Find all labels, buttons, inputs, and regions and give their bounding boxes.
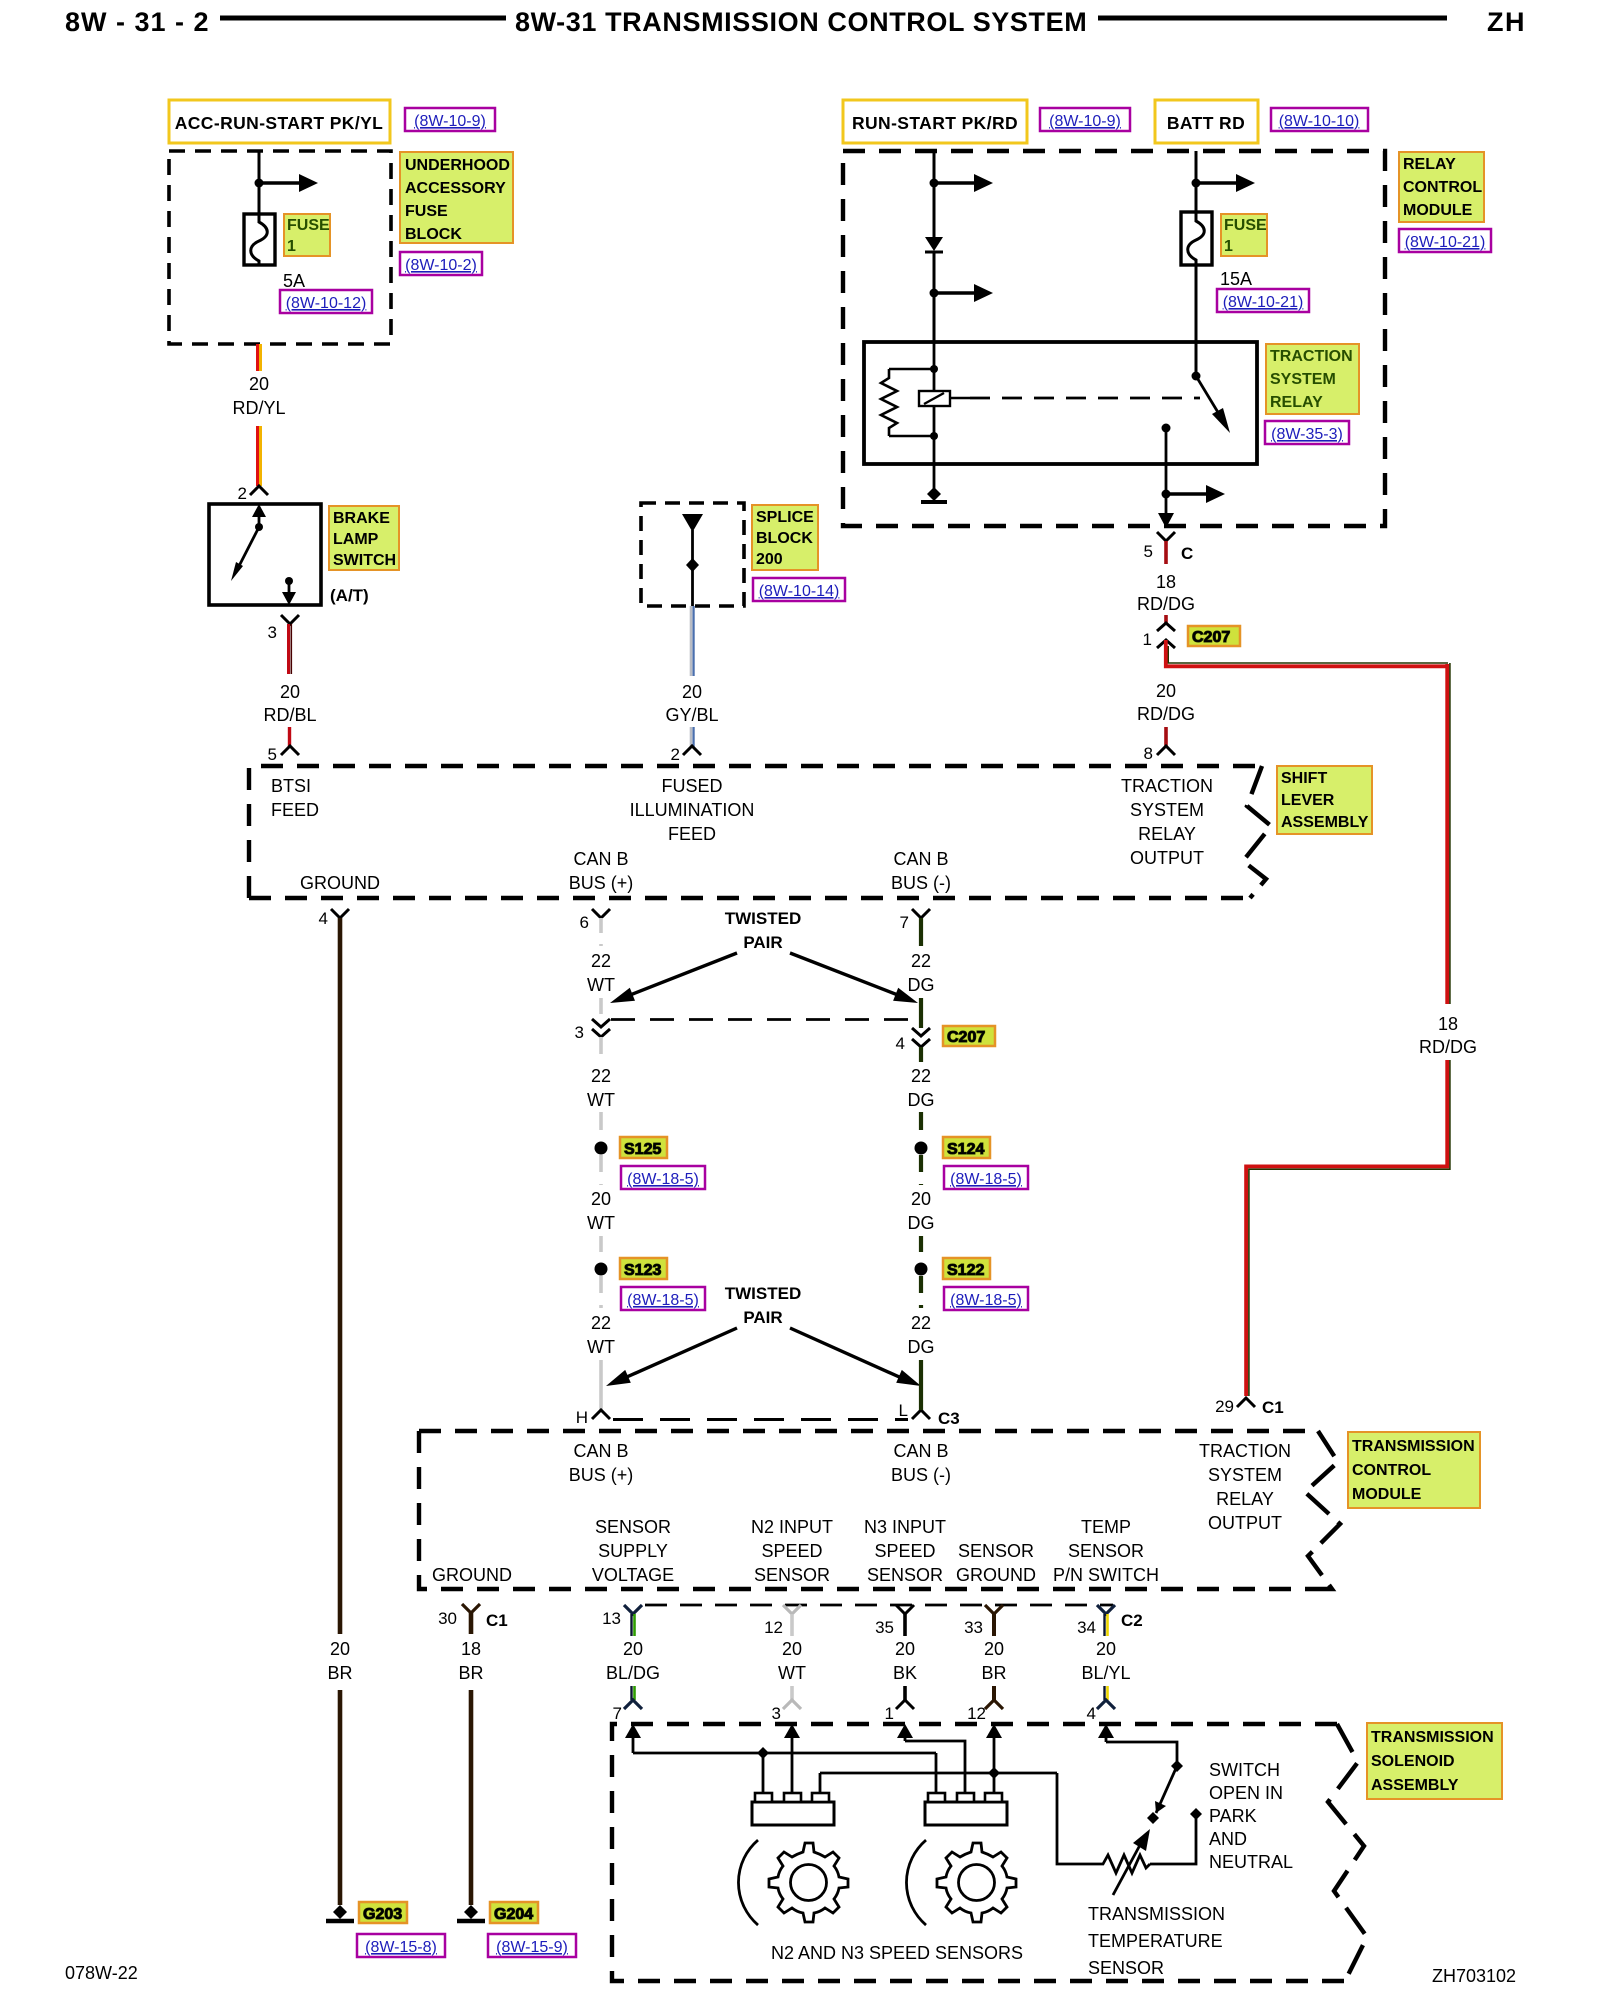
wire 22 DG seg f — [919, 1360, 923, 1410]
svg-text:RELAY: RELAY — [1403, 156, 1456, 173]
svg-text:SPLICE: SPLICE — [756, 509, 814, 526]
svg-text:SYSTEM: SYSTEM — [1130, 800, 1204, 820]
svg-text:S125: S125 — [624, 1141, 661, 1158]
header rule left — [220, 16, 506, 21]
svg-text:20: 20 — [682, 682, 702, 702]
svg-text:TRANSMISSION: TRANSMISSION — [1352, 1438, 1475, 1455]
fuse label FUSE 1 — [1221, 214, 1267, 256]
svg-text:5A: 5A — [283, 271, 305, 291]
svg-text:SYSTEM: SYSTEM — [1208, 1465, 1282, 1485]
relay control module box — [843, 151, 1385, 526]
reference link 8W-18-5 S123 — [621, 1287, 705, 1310]
twisted pair arrow right upper — [790, 953, 903, 997]
svg-text:BR: BR — [458, 1663, 483, 1683]
wire arrow branch right — [1196, 181, 1238, 185]
wire below diode — [933, 252, 936, 344]
svg-text:BL/DG: BL/DG — [606, 1663, 660, 1683]
svg-text:MODULE: MODULE — [1403, 202, 1473, 219]
svg-text:DG: DG — [908, 975, 935, 995]
relay output pole — [1162, 424, 1171, 433]
reference link 8W-10-12 — [280, 290, 372, 313]
relay coil top lead — [889, 368, 934, 371]
svg-text:L: L — [899, 1401, 908, 1420]
splice junction diamond — [686, 558, 699, 572]
svg-text:SOLENOID: SOLENOID — [1371, 1753, 1455, 1770]
wire 20 WT n2 lower — [790, 1686, 794, 1700]
svg-text:WT: WT — [587, 975, 615, 995]
wire sensor ground bus — [820, 1772, 1057, 1775]
svg-text:12: 12 — [764, 1618, 783, 1637]
svg-text:8W - 31 - 2: 8W - 31 - 2 — [65, 7, 210, 37]
traction system relay box — [864, 342, 1257, 464]
svg-text:BK: BK — [893, 1663, 917, 1683]
wire 22 WT seg b — [599, 998, 603, 1023]
svg-text:ACCESSORY: ACCESSORY — [405, 180, 506, 197]
svg-text:BLOCK: BLOCK — [756, 530, 813, 547]
wire ground to sensor2 tab3 — [993, 1773, 996, 1796]
svg-text:22: 22 — [911, 951, 931, 971]
reference link 8W-18-5 S124 — [944, 1166, 1028, 1189]
node junction dot — [255, 179, 264, 188]
svg-text:DG: DG — [908, 1213, 935, 1233]
svg-text:20: 20 — [895, 1639, 915, 1659]
svg-text:OUTPUT: OUTPUT — [1208, 1513, 1282, 1533]
svg-text:(8W-10-2): (8W-10-2) — [405, 257, 477, 274]
component label shift lever assembly — [1277, 766, 1372, 834]
svg-text:20: 20 — [249, 374, 269, 394]
svg-text:SENSOR: SENSOR — [595, 1517, 671, 1537]
svg-text:SUPPLY: SUPPLY — [598, 1541, 668, 1561]
svg-text:20: 20 — [984, 1639, 1004, 1659]
svg-text:OPEN IN: OPEN IN — [1209, 1783, 1283, 1803]
svg-text:(8W-15-9): (8W-15-9) — [496, 1939, 568, 1956]
svg-text:WT: WT — [587, 1090, 615, 1110]
relay switch blade — [1196, 376, 1219, 414]
connector bar C1-C2 tie line — [645, 1604, 1113, 1607]
splice label S123 — [620, 1258, 667, 1279]
wire arrow branch right output — [1166, 492, 1208, 496]
svg-text:6: 6 — [580, 913, 589, 932]
wire fuse to relay — [1195, 265, 1198, 376]
connector label C207 mid — [943, 1026, 995, 1046]
wire 20 BR sensor lower — [992, 1686, 996, 1700]
wire 20 GY/BL upper segment — [691, 606, 694, 676]
wire 20 BK upper — [903, 1614, 907, 1636]
svg-text:BUS (+): BUS (+) — [569, 873, 634, 893]
svg-text:29: 29 — [1215, 1397, 1234, 1416]
svg-text:CONTROL: CONTROL — [1352, 1462, 1431, 1479]
svg-text:PAIR: PAIR — [743, 1308, 782, 1327]
node junction dot output — [1162, 490, 1171, 499]
splice S123 — [595, 1263, 608, 1276]
svg-text:20: 20 — [1096, 1639, 1116, 1659]
connector label C207 — [1188, 626, 1240, 646]
svg-text:30: 30 — [438, 1609, 457, 1628]
svg-text:BATT RD: BATT RD — [1167, 113, 1245, 133]
feed label RUN-START PK/RD — [843, 100, 1027, 143]
svg-text:CAN B: CAN B — [893, 849, 948, 869]
wire 18 BR stub — [469, 1613, 474, 1634]
svg-text:BR: BR — [981, 1663, 1006, 1683]
svg-text:SPEED: SPEED — [874, 1541, 935, 1561]
reference link 8W-15-8 — [357, 1934, 445, 1957]
svg-text:SPEED: SPEED — [761, 1541, 822, 1561]
svg-text:078W-22: 078W-22 — [65, 1963, 138, 1983]
wire 20 BK lower — [903, 1686, 907, 1700]
entry arrow pin 1 — [904, 1734, 907, 1741]
wire 20 WT seg — [599, 1155, 603, 1185]
svg-text:N2 AND N3 SPEED SENSORS: N2 AND N3 SPEED SENSORS — [771, 1943, 1023, 1963]
splice stem wire — [691, 530, 694, 606]
wire pn switch jog — [1106, 1742, 1177, 1764]
svg-text:15A: 15A — [1220, 269, 1252, 289]
svg-text:5: 5 — [268, 745, 277, 764]
svg-text:NEUTRAL: NEUTRAL — [1209, 1852, 1293, 1872]
svg-text:S124: S124 — [947, 1141, 984, 1158]
svg-text:BUS (-): BUS (-) — [891, 1465, 951, 1485]
wire 20 DG seg — [919, 1155, 923, 1185]
wire 18 RD/DG right riser upper — [1447, 663, 1450, 1004]
wire 20 DG seg b — [919, 1236, 923, 1262]
switch contact dot — [255, 523, 263, 531]
svg-text:N3 INPUT: N3 INPUT — [864, 1517, 946, 1537]
entry arrow pin 3 — [791, 1734, 794, 1796]
svg-text:BRAKE: BRAKE — [333, 510, 390, 527]
svg-text:MODULE: MODULE — [1352, 1486, 1422, 1503]
splice S122 — [915, 1263, 928, 1276]
svg-text:TRANSMISSION: TRANSMISSION — [1371, 1729, 1494, 1746]
svg-text:OUTPUT: OUTPUT — [1130, 848, 1204, 868]
svg-text:200: 200 — [756, 551, 783, 568]
svg-text:SWITCH: SWITCH — [1209, 1760, 1280, 1780]
ground G204 symbol — [457, 1905, 485, 1921]
svg-text:22: 22 — [911, 1066, 931, 1086]
component label brake lamp switch — [329, 506, 399, 570]
wire feed into fuse — [258, 151, 261, 214]
component label underhood accessory fuse block — [400, 152, 513, 243]
component label transmission solenoid assembly — [1367, 1723, 1502, 1799]
svg-text:RELAY: RELAY — [1270, 394, 1323, 411]
wire 20 GY/BL lower segment — [691, 727, 694, 748]
svg-text:4: 4 — [1087, 1704, 1096, 1723]
wire 22 WT seg f — [599, 1360, 603, 1410]
svg-text:FUSE: FUSE — [405, 203, 448, 220]
svg-text:CONTROL: CONTROL — [1403, 179, 1482, 196]
svg-text:(A/T): (A/T) — [330, 586, 369, 605]
svg-text:C: C — [1181, 544, 1193, 563]
reference link 8W-35-3 — [1265, 421, 1349, 444]
svg-text:3: 3 — [772, 1704, 781, 1723]
twisted pair arrow left lower — [620, 1328, 737, 1380]
svg-text:20: 20 — [591, 1189, 611, 1209]
svg-text:C207: C207 — [1192, 629, 1230, 646]
gear N3 arc — [906, 1840, 926, 1925]
wire 22 WT seg a — [599, 918, 603, 946]
svg-text:12: 12 — [967, 1704, 986, 1723]
wire ground bus to temp sensor — [1057, 1773, 1099, 1864]
svg-text:GROUND: GROUND — [300, 873, 380, 893]
gear N3 — [937, 1843, 1016, 1922]
transmission control module box — [419, 1431, 1318, 1589]
wire right contact to temp sensor — [1150, 1814, 1196, 1864]
svg-text:TRANSMISSION: TRANSMISSION — [1088, 1904, 1225, 1924]
svg-text:22: 22 — [591, 1313, 611, 1333]
node junction supply — [757, 1747, 769, 1759]
reference link 8W-10-9 left — [405, 108, 495, 131]
wire 22 WT seg d — [599, 1112, 603, 1141]
svg-text:C2: C2 — [1121, 1611, 1143, 1630]
svg-text:BLOCK: BLOCK — [405, 226, 462, 243]
svg-text:(8W-35-3): (8W-35-3) — [1271, 426, 1343, 443]
twisted pair arrow left upper — [625, 953, 737, 997]
component label splice block 200 — [752, 505, 818, 570]
svg-text:ZH703102: ZH703102 — [1432, 1966, 1516, 1986]
splice S125 — [595, 1142, 608, 1155]
wire stub above C207 — [1164, 615, 1168, 624]
svg-text:P/N SWITCH: P/N SWITCH — [1053, 1565, 1159, 1585]
entry arrow pin 12 — [993, 1734, 996, 1772]
relay actuation dashed link — [970, 397, 1200, 400]
svg-text:22: 22 — [591, 1066, 611, 1086]
svg-text:DG: DG — [908, 1090, 935, 1110]
svg-text:WT: WT — [587, 1337, 615, 1357]
svg-text:(8W-10-14): (8W-10-14) — [759, 583, 840, 600]
svg-text:C3: C3 — [938, 1409, 960, 1428]
wire arrow branch right lower — [934, 291, 976, 295]
svg-text:SENSOR: SENSOR — [754, 1565, 830, 1585]
fuse label FUSE 1 — [284, 214, 330, 256]
wire 22 WT seg c — [599, 1037, 603, 1062]
svg-text:BL/YL: BL/YL — [1081, 1663, 1130, 1683]
svg-text:BTSI: BTSI — [271, 776, 311, 796]
svg-text:RELAY: RELAY — [1138, 824, 1196, 844]
wire 22 DG seg d — [919, 1112, 923, 1141]
svg-text:FEED: FEED — [271, 800, 319, 820]
svg-text:ILLUMINATION: ILLUMINATION — [630, 800, 755, 820]
wire 20 BL/YL upper — [1105, 1614, 1108, 1636]
svg-text:TWISTED: TWISTED — [725, 1284, 802, 1303]
temperature sensor resistor — [1099, 1855, 1150, 1873]
entry arrow pin 7 — [632, 1734, 635, 1753]
gear N2 — [769, 1843, 848, 1922]
wire 18 BR lower — [469, 1690, 474, 1905]
wire run-start feed — [933, 151, 936, 238]
wire ground to sensor1 tab3 — [819, 1773, 822, 1796]
splice label S122 — [943, 1258, 990, 1279]
svg-text:TRACTION: TRACTION — [1121, 776, 1213, 796]
svg-text:1: 1 — [1143, 630, 1152, 649]
relay ground wire — [933, 464, 936, 490]
svg-text:ASSEMBLY: ASSEMBLY — [1281, 814, 1369, 831]
arrow out of module bottom — [1158, 513, 1174, 528]
svg-text:CAN B: CAN B — [573, 1441, 628, 1461]
header rule right — [1098, 16, 1447, 21]
ground chassis relay — [921, 487, 947, 502]
svg-text:7: 7 — [900, 913, 909, 932]
svg-text:20: 20 — [330, 1639, 350, 1659]
wire 20 BR sensor upper — [992, 1614, 996, 1636]
svg-text:S123: S123 — [624, 1262, 661, 1279]
svg-text:1: 1 — [885, 1704, 894, 1723]
reference link 8W-10-14 — [753, 578, 845, 601]
svg-text:(8W-18-5): (8W-18-5) — [950, 1171, 1022, 1188]
svg-text:VOLTAGE: VOLTAGE — [592, 1565, 674, 1585]
switch blade — [238, 527, 259, 568]
svg-text:3: 3 — [575, 1023, 584, 1042]
svg-text:1: 1 — [1224, 238, 1233, 255]
entry arrow pin 4 — [1105, 1734, 1108, 1742]
svg-text:LEVER: LEVER — [1281, 792, 1335, 809]
svg-text:22: 22 — [591, 951, 611, 971]
svg-text:DG: DG — [908, 1337, 935, 1357]
svg-text:WT: WT — [587, 1213, 615, 1233]
svg-text:BR: BR — [327, 1663, 352, 1683]
connector C207 dashed tie line — [611, 1018, 910, 1021]
splice block 200 box — [641, 503, 744, 606]
relay coil bottom lead — [889, 435, 934, 438]
svg-text:18: 18 — [1438, 1014, 1458, 1034]
reference link 8W-10-2 — [400, 252, 482, 275]
pn switch top contact — [1171, 1760, 1183, 1772]
wire 20 RD/DG elbow to right riser — [1166, 640, 1449, 666]
svg-text:FEED: FEED — [668, 824, 716, 844]
svg-text:20: 20 — [911, 1189, 931, 1209]
twisted pair arrow right lower — [790, 1328, 906, 1380]
wire 22 WT seg e — [599, 1276, 603, 1308]
reference link 8W-10-21 fuse — [1217, 289, 1309, 312]
component label relay control module — [1399, 152, 1484, 222]
svg-text:UNDERHOOD: UNDERHOOD — [405, 157, 510, 174]
relay coil resistor zigzag — [881, 369, 897, 436]
wire 20 WT n2 upper — [790, 1614, 794, 1636]
svg-text:5: 5 — [1144, 542, 1153, 561]
ground G203 symbol — [326, 1905, 354, 1921]
splice triangle — [682, 514, 703, 532]
svg-text:13: 13 — [602, 1609, 621, 1628]
svg-text:N2 INPUT: N2 INPUT — [751, 1517, 833, 1537]
svg-text:34: 34 — [1077, 1618, 1096, 1637]
svg-text:3: 3 — [268, 623, 277, 642]
svg-text:TEMP: TEMP — [1081, 1517, 1131, 1537]
svg-text:RD/YL: RD/YL — [232, 398, 285, 418]
wire supply to sensor1 tab1 — [762, 1753, 765, 1796]
svg-text:TWISTED: TWISTED — [725, 909, 802, 928]
svg-text:18: 18 — [461, 1639, 481, 1659]
feed label BATT RD — [1155, 100, 1258, 143]
svg-text:20: 20 — [280, 682, 300, 702]
svg-text:(8W-15-8): (8W-15-8) — [365, 1939, 437, 1956]
svg-text:(8W-10-21): (8W-10-21) — [1405, 234, 1486, 251]
svg-text:ACC-RUN-START PK/YL: ACC-RUN-START PK/YL — [175, 113, 384, 133]
transmission solenoid assembly jagged edge — [1328, 1724, 1367, 1981]
svg-text:CAN B: CAN B — [573, 849, 628, 869]
reference link 8W-10-21 module — [1399, 229, 1491, 252]
shift lever assembly box — [249, 766, 1262, 898]
svg-text:4: 4 — [319, 909, 328, 928]
svg-text:H: H — [576, 1408, 588, 1427]
wire 20 BL/YL lower — [1105, 1686, 1108, 1700]
svg-text:BUS (-): BUS (-) — [891, 873, 951, 893]
wire 20 BL/DG upper — [632, 1614, 635, 1636]
svg-text:(8W-10-9): (8W-10-9) — [1049, 113, 1121, 130]
switch lower contact arrow — [285, 577, 293, 585]
underhood accessory fuse block box — [169, 151, 391, 344]
svg-text:2: 2 — [671, 745, 680, 764]
svg-text:BUS (+): BUS (+) — [569, 1465, 634, 1485]
svg-text:FUSE: FUSE — [1224, 217, 1267, 234]
wire 20 RD/BL upper segment — [289, 624, 292, 674]
svg-text:S122: S122 — [947, 1262, 984, 1279]
svg-text:8W-31 TRANSMISSION CONTROL SYS: 8W-31 TRANSMISSION CONTROL SYSTEM — [515, 7, 1087, 37]
svg-text:RD/DG: RD/DG — [1419, 1037, 1477, 1057]
svg-text:8: 8 — [1144, 744, 1153, 763]
wire batt rd feed — [1195, 151, 1198, 212]
svg-text:(8W-18-5): (8W-18-5) — [627, 1292, 699, 1309]
svg-text:35: 35 — [875, 1618, 894, 1637]
node junction dot — [1192, 179, 1201, 188]
shift lever assembly jagged edge — [1243, 766, 1271, 898]
splice S124 — [915, 1142, 928, 1155]
svg-text:20: 20 — [623, 1639, 643, 1659]
wire supply to sensor2 tab1 — [935, 1753, 938, 1796]
feed label ACC-RUN-START PK/YL — [169, 100, 390, 143]
svg-text:1: 1 — [287, 238, 296, 255]
svg-text:C207: C207 — [947, 1029, 985, 1046]
svg-text:G204: G204 — [494, 1906, 533, 1923]
svg-text:SYSTEM: SYSTEM — [1270, 371, 1336, 388]
svg-text:SHIFT: SHIFT — [1281, 770, 1327, 787]
svg-text:ZH: ZH — [1487, 7, 1526, 37]
svg-text:(8W-18-5): (8W-18-5) — [627, 1171, 699, 1188]
svg-text:22: 22 — [911, 1313, 931, 1333]
svg-text:33: 33 — [964, 1618, 983, 1637]
wire 18 RD/DG riser lower and elbow to C1 — [1246, 1060, 1450, 1396]
reference link 8W-10-10 — [1271, 108, 1368, 131]
svg-text:SENSOR: SENSOR — [1068, 1541, 1144, 1561]
node junction ground — [988, 1767, 1000, 1779]
brake lamp switch box — [209, 504, 321, 605]
svg-text:20: 20 — [1156, 681, 1176, 701]
svg-text:TEMPERATURE: TEMPERATURE — [1088, 1931, 1223, 1951]
svg-text:SENSOR: SENSOR — [1088, 1958, 1164, 1978]
component label traction system relay — [1266, 344, 1359, 414]
svg-text:RUN-START PK/RD: RUN-START PK/RD — [852, 113, 1018, 133]
svg-text:20: 20 — [782, 1639, 802, 1659]
svg-text:FUSED: FUSED — [661, 776, 722, 796]
node junction dot — [930, 179, 939, 188]
transmission solenoid assembly box — [612, 1724, 1345, 1981]
svg-text:SWITCH: SWITCH — [333, 552, 396, 569]
wire 22 DG seg a — [919, 918, 923, 946]
wire arrow branch right upper — [934, 181, 976, 185]
speed sensor connector N3 — [925, 1793, 1007, 1825]
svg-text:RD/DG: RD/DG — [1137, 704, 1195, 724]
wire sensor supply bus — [633, 1752, 936, 1755]
component label transmission control module — [1348, 1432, 1480, 1508]
reference link 8W-18-5 S122 — [944, 1287, 1028, 1310]
svg-text:PARK: PARK — [1209, 1806, 1257, 1826]
wire 20 WT seg b — [599, 1236, 603, 1262]
svg-text:TRACTION: TRACTION — [1270, 348, 1353, 365]
wire 22 DG seg c — [919, 1047, 923, 1062]
wire 20 RD/BL lower segment — [288, 727, 291, 748]
svg-text:(8W-10-12): (8W-10-12) — [286, 295, 367, 312]
svg-text:GROUND: GROUND — [956, 1565, 1036, 1585]
reference link 8W-10-9 right — [1040, 108, 1130, 131]
wire 22 DG seg e — [919, 1276, 923, 1308]
svg-text:LAMP: LAMP — [333, 531, 379, 548]
svg-text:G203: G203 — [363, 1906, 402, 1923]
